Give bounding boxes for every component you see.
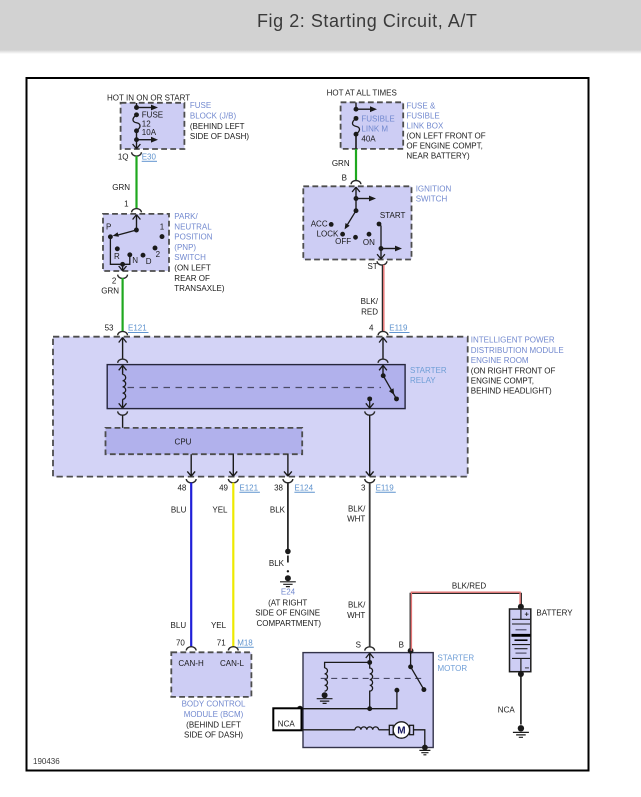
connector arc above ignition switch bbox=[351, 181, 361, 185]
PNP pivot dot bbox=[134, 228, 139, 233]
contact to motor wire bbox=[300, 690, 397, 709]
svg-text:FUSE: FUSE bbox=[190, 101, 211, 110]
connector arc below PNP bbox=[118, 275, 128, 279]
connector arc above IPDM pin 53 bbox=[118, 331, 128, 335]
fusible link node dot 3 bbox=[354, 132, 359, 137]
svg-text:(ON LEFT: (ON LEFT bbox=[174, 264, 211, 273]
svg-text:SIDE OF DASH): SIDE OF DASH) bbox=[190, 132, 249, 141]
relay internal dashed line bbox=[128, 387, 382, 389]
svg-text:BLK/: BLK/ bbox=[348, 504, 366, 513]
ignition ST branch wire bbox=[379, 224, 381, 249]
relay switch upper dot bbox=[381, 373, 386, 378]
svg-text:FUSE &: FUSE & bbox=[406, 102, 436, 111]
IPDM entry arrow pin 53 bbox=[122, 337, 124, 359]
starter motor box bbox=[303, 653, 433, 748]
svg-text:E124: E124 bbox=[294, 483, 313, 492]
svg-text:4: 4 bbox=[369, 324, 374, 333]
IPDM entry arrow pin 4 bbox=[382, 337, 384, 359]
connector arc below IPDM pin 3 bbox=[365, 479, 375, 483]
fuse block node dot 3 bbox=[134, 128, 139, 133]
svg-text:B: B bbox=[342, 173, 347, 182]
svg-text:BLK/RED: BLK/RED bbox=[452, 582, 486, 591]
svg-text:BATTERY: BATTERY bbox=[536, 609, 573, 618]
svg-text:CAN-H: CAN-H bbox=[178, 659, 204, 668]
ignition node dot with branch arrow bbox=[354, 196, 359, 201]
svg-text:LINK BOX: LINK BOX bbox=[406, 122, 444, 131]
svg-text:GRN: GRN bbox=[112, 183, 130, 192]
starter series winding bbox=[355, 727, 379, 730]
svg-text:S: S bbox=[356, 640, 361, 649]
svg-text:(PNP): (PNP) bbox=[174, 243, 196, 252]
svg-text:INTELLIGENT POWER: INTELLIGENT POWER bbox=[471, 336, 555, 345]
motor M symbol bbox=[389, 725, 393, 734]
PNP entry arrow up bbox=[136, 215, 138, 231]
svg-text:ST: ST bbox=[367, 262, 377, 271]
fusible link wire stub bbox=[355, 103, 357, 110]
svg-text:E119: E119 bbox=[376, 483, 395, 492]
connector arc above BCM pin 70 bbox=[186, 647, 196, 651]
svg-text:STARTER: STARTER bbox=[410, 366, 447, 375]
svg-text:BLK/: BLK/ bbox=[361, 297, 379, 306]
svg-text:OFF: OFF bbox=[335, 237, 351, 246]
BCM box bbox=[171, 652, 251, 697]
svg-text:40A: 40A bbox=[361, 134, 376, 143]
svg-text:BLK: BLK bbox=[269, 559, 285, 568]
svg-text:E121: E121 bbox=[128, 324, 147, 333]
relay coil bbox=[123, 375, 126, 400]
contact N bbox=[127, 252, 132, 257]
svg-text:ENGINE COMPT,: ENGINE COMPT, bbox=[471, 377, 534, 386]
svg-text:BEHIND HEADLIGHT): BEHIND HEADLIGHT) bbox=[471, 387, 552, 396]
diagram frame bbox=[27, 78, 589, 771]
ignition switch box bbox=[303, 186, 411, 259]
connector arc below relay switch bbox=[365, 411, 375, 415]
ignition exit arrow down bbox=[380, 249, 382, 259]
svg-text:E30: E30 bbox=[142, 152, 157, 161]
fuse block node dot 1 with branch arrow bbox=[134, 105, 139, 110]
svg-text:GRN: GRN bbox=[101, 287, 119, 296]
pull-in coil bbox=[370, 662, 373, 708]
PNP exit arrow down bbox=[122, 264, 124, 270]
svg-text:IGNITION: IGNITION bbox=[416, 185, 452, 194]
relay switch exit arrow bbox=[366, 399, 374, 408]
ignition pivot dot bbox=[354, 208, 359, 213]
wire winding to motor bbox=[379, 729, 390, 731]
battery positive terminal dot bbox=[518, 604, 524, 610]
svg-text:FUSIBLE: FUSIBLE bbox=[361, 114, 394, 123]
fuse block node dot 2 bbox=[134, 112, 139, 117]
connector arc below ignition switch bbox=[377, 261, 387, 265]
battery ground symbol bbox=[518, 725, 524, 731]
fuse block node dot 4 with branch arrow bbox=[134, 137, 139, 142]
svg-text:HOT AT ALL TIMES: HOT AT ALL TIMES bbox=[327, 88, 397, 97]
svg-text:2: 2 bbox=[156, 250, 161, 259]
svg-text:P: P bbox=[106, 223, 111, 232]
wire GRN fusible link to ignition switch bbox=[355, 149, 357, 181]
svg-text:(AT RIGHT: (AT RIGHT bbox=[268, 598, 307, 607]
svg-text:ACC: ACC bbox=[311, 219, 328, 228]
relay switch arm end dot bbox=[394, 396, 399, 401]
battery ground wire NCA bbox=[520, 674, 522, 725]
svg-text:SIDE OF ENGINE: SIDE OF ENGINE bbox=[255, 609, 320, 618]
svg-text:MOTOR: MOTOR bbox=[438, 664, 468, 673]
svg-text:M: M bbox=[397, 726, 405, 737]
svg-text:E24: E24 bbox=[281, 587, 296, 596]
contact OFF bbox=[353, 235, 358, 240]
connector arc above BCM pin 71 bbox=[228, 647, 238, 651]
svg-text:POSITION: POSITION bbox=[174, 233, 212, 242]
svg-text:CPU: CPU bbox=[175, 437, 192, 446]
svg-text:R: R bbox=[114, 252, 120, 261]
fuse and fusible link box bbox=[341, 102, 404, 149]
svg-text:WHT: WHT bbox=[347, 515, 365, 524]
wire relay coil to CPU bbox=[122, 415, 124, 428]
svg-text:STARTER: STARTER bbox=[438, 654, 475, 663]
svg-text:CAN-L: CAN-L bbox=[220, 659, 245, 668]
svg-text:HOT IN ON OR START: HOT IN ON OR START bbox=[107, 93, 190, 102]
svg-text:53: 53 bbox=[105, 324, 114, 333]
ignition entry arrow up bbox=[355, 187, 357, 199]
relay switch output dot bbox=[367, 396, 372, 401]
svg-text:N: N bbox=[132, 256, 138, 265]
svg-text:PARK/: PARK/ bbox=[174, 212, 198, 221]
svg-text:NCA: NCA bbox=[498, 705, 516, 714]
BLK dashed stub to ground bbox=[287, 556, 289, 567]
svg-text:FUSE: FUSE bbox=[142, 111, 163, 120]
starter S entry arrow bbox=[369, 653, 371, 662]
wire YEL pin 49 to BCM bbox=[232, 483, 234, 647]
svg-text:(ON LEFT FRONT OF: (ON LEFT FRONT OF bbox=[406, 132, 485, 141]
wire BLK/RED starter B to battery bbox=[410, 593, 521, 650]
svg-text:WHT: WHT bbox=[347, 611, 365, 620]
svg-text:FUSIBLE: FUSIBLE bbox=[406, 112, 439, 121]
NCA box bbox=[273, 708, 301, 730]
relay switch entry arrow bbox=[382, 365, 384, 376]
fusible link M element squiggle bbox=[352, 118, 359, 134]
svg-text:TRANSAXLE): TRANSAXLE) bbox=[174, 284, 225, 293]
wire BLK/WHT pin 3 to starter S bbox=[369, 483, 371, 647]
ignition switch arm toward LOCK bbox=[348, 211, 357, 225]
svg-text:REAR OF: REAR OF bbox=[174, 274, 210, 283]
fusible link node dot 1 with branch arrow bbox=[354, 107, 359, 112]
svg-text:GRN: GRN bbox=[332, 159, 350, 168]
fuse block internal wire stub bbox=[136, 103, 138, 108]
pull-in coil bottom junction dot bbox=[367, 706, 372, 711]
svg-text:NEUTRAL: NEUTRAL bbox=[174, 222, 212, 231]
svg-text:2: 2 bbox=[112, 276, 117, 285]
svg-text:RED: RED bbox=[361, 307, 378, 316]
motor feed wire bbox=[302, 729, 356, 731]
svg-text:10A: 10A bbox=[142, 128, 157, 137]
CPU output wire pin 49 bbox=[229, 454, 237, 476]
IPDM module box bbox=[53, 337, 468, 477]
ignition ST node dot with branch arrow bbox=[379, 246, 384, 251]
fuse block (J/B) box bbox=[121, 103, 185, 149]
connector arc above starter S bbox=[365, 647, 375, 651]
BLK junction dot bbox=[285, 549, 291, 555]
svg-text:(ON RIGHT FRONT OF: (ON RIGHT FRONT OF bbox=[471, 366, 556, 375]
motor to ground wire bbox=[414, 730, 425, 748]
svg-text:Fig 2: Starting Circuit, A/T: Fig 2: Starting Circuit, A/T bbox=[257, 11, 477, 31]
starter relay box bbox=[107, 365, 405, 409]
contact ON bbox=[367, 232, 372, 237]
svg-text:SWITCH: SWITCH bbox=[174, 253, 206, 262]
contact R bbox=[115, 246, 120, 251]
connector arc below fuse block bbox=[132, 152, 142, 156]
svg-text:NCA: NCA bbox=[278, 719, 296, 728]
starter switch arm open bbox=[411, 667, 424, 690]
svg-text:1: 1 bbox=[124, 200, 129, 209]
svg-text:RELAY: RELAY bbox=[410, 376, 436, 385]
svg-text:SIDE OF DASH): SIDE OF DASH) bbox=[184, 731, 243, 740]
relay switch arm bbox=[383, 376, 396, 399]
contact P bbox=[108, 234, 113, 239]
svg-text:71: 71 bbox=[217, 638, 226, 647]
CPU box bbox=[106, 428, 303, 454]
fuse block exit arrow down bbox=[136, 140, 138, 149]
contact D bbox=[141, 253, 146, 258]
svg-text:49: 49 bbox=[219, 483, 228, 492]
svg-text:B: B bbox=[399, 640, 404, 649]
PNP switch arm to P bbox=[117, 230, 136, 235]
fuse block wire dot3-dot4 bbox=[136, 131, 138, 140]
connector arc above IPDM pin 4 bbox=[378, 331, 388, 335]
contact START bbox=[377, 222, 382, 227]
relay coil exit arrow bbox=[119, 399, 127, 408]
connector arc below relay coil bbox=[118, 411, 128, 415]
svg-text:OF ENGINE COMPT,: OF ENGINE COMPT, bbox=[406, 142, 482, 151]
hold-in coil bbox=[325, 668, 328, 691]
svg-text:1Q: 1Q bbox=[118, 152, 129, 161]
svg-text:ON: ON bbox=[363, 238, 375, 247]
svg-text:+: + bbox=[525, 610, 530, 619]
starter internal dashed line bbox=[321, 677, 424, 679]
battery top conductor bbox=[520, 609, 522, 619]
svg-text:BLU: BLU bbox=[171, 505, 187, 514]
starter B terminal dot bbox=[408, 648, 414, 654]
svg-text:70: 70 bbox=[176, 638, 185, 647]
svg-text:D: D bbox=[146, 257, 152, 266]
ground E24 symbol bbox=[285, 575, 291, 581]
svg-text:(BEHIND LEFT: (BEHIND LEFT bbox=[186, 720, 241, 729]
svg-text:DISTRIBUTION MODULE: DISTRIBUTION MODULE bbox=[471, 346, 564, 355]
connector arc above relay switch pin bbox=[378, 359, 388, 363]
svg-text:38: 38 bbox=[274, 483, 283, 492]
fusible link node dot 2 bbox=[354, 116, 359, 121]
svg-text:START: START bbox=[380, 211, 406, 220]
starter contact dot bbox=[394, 688, 399, 693]
PNP switch box bbox=[103, 214, 169, 271]
battery negative terminal dot bbox=[518, 671, 524, 677]
svg-text:BLOCK (J/B): BLOCK (J/B) bbox=[190, 112, 237, 121]
svg-text:3: 3 bbox=[361, 483, 366, 492]
wire to hold-in coil bbox=[325, 662, 370, 668]
fuse F12 element squiggle bbox=[133, 115, 140, 131]
wire BLK pin 38 to ground bbox=[287, 483, 289, 552]
svg-text:YEL: YEL bbox=[212, 505, 228, 514]
connector arc below IPDM pin 49 bbox=[228, 479, 238, 483]
contact 1 bbox=[160, 234, 165, 239]
starter switch upper dot bbox=[408, 664, 413, 669]
battery cell plates bbox=[512, 618, 530, 620]
PNP junction dot bbox=[120, 262, 125, 267]
starter B contact wire bbox=[410, 651, 412, 667]
PNP wire P to junction bbox=[110, 237, 129, 264]
title bar bbox=[0, 0, 641, 50]
svg-text:190436: 190436 bbox=[33, 757, 60, 766]
fusible link wire to box bottom bbox=[355, 134, 357, 149]
svg-text:MODULE (BCM): MODULE (BCM) bbox=[184, 710, 244, 719]
svg-text:M18: M18 bbox=[237, 638, 253, 647]
connector arc above relay coil pin bbox=[118, 359, 128, 363]
starter switch arm end dot bbox=[421, 687, 426, 692]
connector arc below IPDM pin 38 bbox=[283, 479, 293, 483]
internal ground for hold-in coil bbox=[322, 692, 328, 698]
relay output wire pin 3 bbox=[366, 415, 374, 476]
svg-text:YEL: YEL bbox=[211, 621, 227, 630]
svg-text:E119: E119 bbox=[389, 324, 408, 333]
battery bottom conductor bbox=[520, 658, 522, 671]
wire GRN PNP to IPDM bbox=[121, 278, 123, 332]
connector arc below IPDM pin 48 bbox=[186, 479, 196, 483]
NCA junction dot bbox=[297, 706, 303, 712]
wire GRN fuse to PNP bbox=[135, 156, 137, 209]
svg-text:E121: E121 bbox=[239, 483, 258, 492]
svg-text:48: 48 bbox=[177, 483, 186, 492]
svg-text:NEAR BATTERY): NEAR BATTERY) bbox=[406, 152, 470, 161]
battery box bbox=[510, 609, 531, 672]
svg-text:(BEHIND LEFT: (BEHIND LEFT bbox=[190, 122, 245, 131]
starter S node dot bbox=[367, 660, 372, 665]
svg-text:BLK/: BLK/ bbox=[348, 601, 366, 610]
starter ground symbol bbox=[422, 745, 428, 751]
CPU output wire pin 48 bbox=[187, 454, 195, 476]
svg-text:BLK: BLK bbox=[270, 505, 286, 514]
svg-text:1: 1 bbox=[160, 223, 165, 232]
CPU output wire pin 38 bbox=[284, 454, 292, 476]
svg-text:−: − bbox=[525, 664, 530, 673]
svg-text:COMPARTMENT): COMPARTMENT) bbox=[257, 619, 322, 628]
svg-text:BLU: BLU bbox=[171, 621, 187, 630]
connector arc above PNP switch bbox=[132, 209, 142, 213]
contact LOCK bbox=[340, 232, 345, 237]
contact 2 bbox=[153, 246, 158, 251]
svg-text:LINK M: LINK M bbox=[361, 125, 388, 134]
contact ACC bbox=[329, 222, 334, 227]
relay coil entry arrow bbox=[122, 365, 124, 374]
wire BLU pin 48 to BCM bbox=[190, 483, 192, 647]
svg-text:SWITCH: SWITCH bbox=[416, 195, 448, 204]
wire BLK/RED ignition to IPDM bbox=[381, 265, 383, 332]
svg-text:BODY CONTROL: BODY CONTROL bbox=[182, 700, 246, 709]
svg-text:ENGINE ROOM: ENGINE ROOM bbox=[471, 356, 529, 365]
